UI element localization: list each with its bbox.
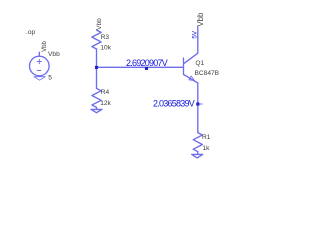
wire R3 bottom to node	[96, 49, 98, 67]
ground under R1	[192, 154, 203, 158]
svg-text:BC847B: BC847B	[195, 70, 220, 77]
svg-text:2.6920907V: 2.6920907V	[126, 58, 168, 68]
resistor R4 zigzag	[92, 86, 101, 109]
svg-text:.op: .op	[26, 29, 35, 36]
node junction dot at divider	[95, 66, 98, 69]
Q1 collector diagonal and wire up to flag	[184, 27, 198, 63]
Q1 emitter diagonal with wire down	[184, 75, 198, 131]
svg-text:Vbb: Vbb	[96, 18, 103, 30]
transistor Q1 base bar	[183, 58, 185, 75]
svg-text:12k: 12k	[100, 100, 111, 107]
svg-text:Vbb: Vbb	[48, 51, 60, 58]
svg-text:R3: R3	[101, 34, 110, 41]
resistor R1 zigzag	[193, 131, 202, 155]
svg-text:2.0365839V: 2.0365839V	[153, 99, 195, 109]
svg-text:10k: 10k	[100, 44, 111, 51]
ground under R4	[91, 109, 102, 112]
ground under source	[34, 77, 45, 81]
svg-text:5V: 5V	[192, 30, 199, 39]
svg-text:5: 5	[48, 75, 52, 82]
Q1 emitter arrowhead	[189, 76, 195, 81]
anchor dot emitter label	[196, 103, 199, 106]
resistor R3 zigzag	[92, 30, 101, 49]
plus sign of source	[37, 59, 41, 63]
svg-text:R4: R4	[101, 89, 110, 96]
wire stub above source	[38, 52, 40, 56]
svg-text:1k: 1k	[203, 145, 211, 152]
base wire from node to Q1	[97, 66, 184, 68]
wire node to R4	[96, 67, 98, 86]
voltage source V (Vbb) circle	[30, 56, 50, 76]
svg-text:R1: R1	[202, 134, 211, 141]
svg-text:Vbb: Vbb	[196, 12, 205, 27]
tick right of emitter label anchor	[198, 103, 202, 105]
anchor dot base label	[145, 67, 148, 70]
minus sign of source	[37, 70, 41, 72]
svg-text:Q1: Q1	[195, 60, 204, 67]
